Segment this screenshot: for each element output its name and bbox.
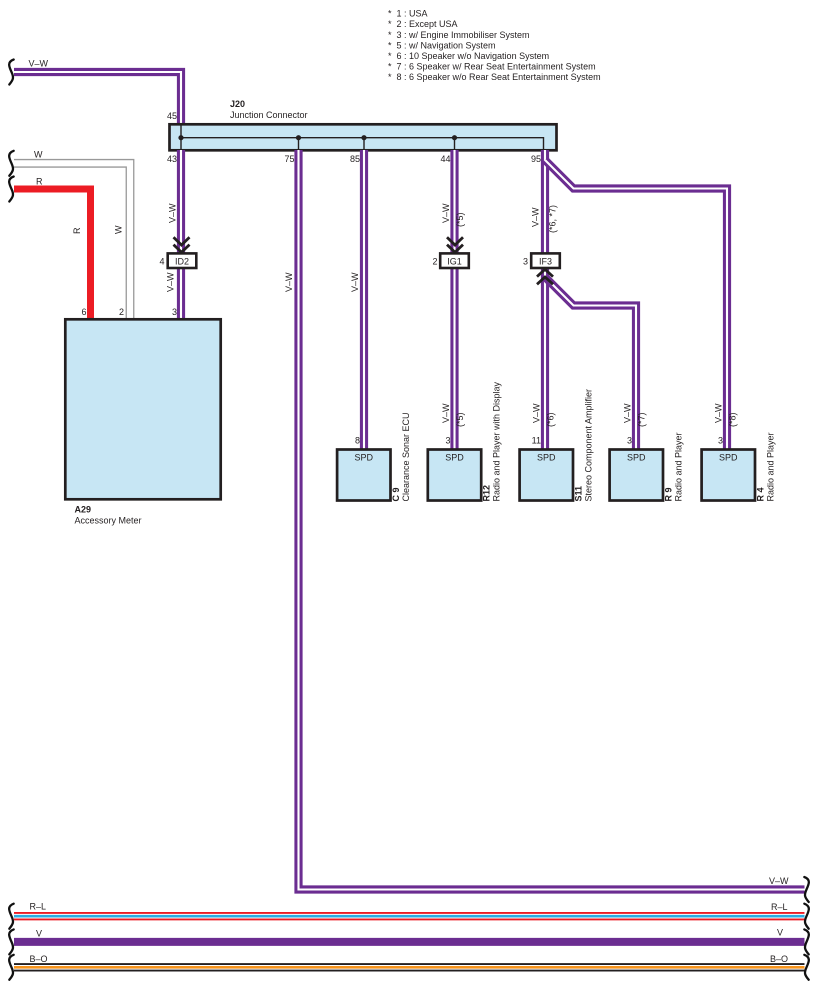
svg-text:S11: S11 xyxy=(573,486,583,502)
J20 internal bus wire xyxy=(181,126,544,151)
break symbol V left xyxy=(9,929,14,954)
break symbol V-W top left xyxy=(9,60,14,85)
svg-text:R–L: R–L xyxy=(30,902,47,912)
wire W to A29 pin 2 xyxy=(14,163,130,318)
svg-text:V–W: V–W xyxy=(350,272,360,292)
svg-text:75: 75 xyxy=(284,154,294,164)
svg-text:W: W xyxy=(114,225,124,234)
break symbol W left xyxy=(9,151,14,176)
svg-text:3: 3 xyxy=(523,256,528,266)
svg-text:8 : 6 Speaker w/o Rear Seat En: 8 : 6 Speaker w/o Rear Seat Entertainmen… xyxy=(397,72,601,82)
component R4 Radio and Player xyxy=(702,450,755,501)
svg-text:*: * xyxy=(388,19,392,29)
svg-text:85: 85 xyxy=(350,154,360,164)
break symbol B-O right xyxy=(804,955,809,980)
junction connector J20 xyxy=(170,124,557,150)
wire V-W J20 pin 75 across bottom to right xyxy=(299,150,805,890)
svg-text:3: 3 xyxy=(718,435,723,445)
connector IF3 xyxy=(531,253,560,268)
arrow into IF3 xyxy=(537,269,553,284)
svg-text:R12: R12 xyxy=(482,485,492,502)
svg-text:Clearance Sonar ECU: Clearance Sonar ECU xyxy=(401,412,411,501)
junction node pin 75 xyxy=(296,135,301,140)
svg-text:V–W: V–W xyxy=(284,272,294,292)
svg-text:6 : 10 Speaker w/o Navigation: 6 : 10 Speaker w/o Navigation System xyxy=(397,51,550,61)
break symbol B-O left xyxy=(9,955,14,980)
svg-text:7 : 6 Speaker w/ Rear Seat Ent: 7 : 6 Speaker w/ Rear Seat Entertainment… xyxy=(397,62,596,72)
svg-text:3: 3 xyxy=(172,307,177,317)
svg-text:V–W: V–W xyxy=(532,403,542,423)
svg-text:8: 8 xyxy=(355,435,360,445)
svg-text:SPD: SPD xyxy=(719,453,738,463)
svg-text:(*8): (*8) xyxy=(728,412,738,427)
svg-text:*: * xyxy=(388,40,392,50)
component C9 Clearance Sonar ECU xyxy=(337,450,390,501)
svg-text:*: * xyxy=(388,72,392,82)
component R12 Radio and Player with Display xyxy=(428,450,481,501)
break symbol R left xyxy=(9,177,14,202)
svg-text:*: * xyxy=(388,30,392,40)
wire V-W ID2 to A29 pin 3 xyxy=(177,268,185,318)
svg-text:Accessory Meter: Accessory Meter xyxy=(75,516,142,526)
svg-text:2 : Except USA: 2 : Except USA xyxy=(397,19,458,29)
svg-text:R: R xyxy=(72,227,82,234)
svg-text:ID2: ID2 xyxy=(175,256,189,266)
component S11 Stereo Component Amplifier xyxy=(520,450,573,501)
svg-text:6: 6 xyxy=(81,307,86,317)
svg-text:B–O: B–O xyxy=(770,954,788,964)
svg-text:R 4: R 4 xyxy=(755,487,765,501)
svg-text:5 : w/ Navigation System: 5 : w/ Navigation System xyxy=(397,40,496,50)
svg-text:V–W: V–W xyxy=(166,272,176,292)
wire R to A29 pin 6 xyxy=(14,189,91,318)
svg-text:43: 43 xyxy=(167,154,177,164)
svg-text:C 9: C 9 xyxy=(391,487,401,501)
junction node pin 43 xyxy=(178,135,183,140)
break symbol V-W bottom right xyxy=(804,877,809,902)
arrow into IG1 xyxy=(447,237,463,252)
svg-text:SPD: SPD xyxy=(445,453,464,463)
svg-text:IF3: IF3 xyxy=(539,256,552,266)
svg-text:SPD: SPD xyxy=(355,453,374,463)
junction node pin 85 xyxy=(361,135,366,140)
svg-text:*: * xyxy=(388,62,392,72)
break symbol R-L right xyxy=(804,904,809,929)
svg-text:W: W xyxy=(34,150,43,160)
svg-text:IG1: IG1 xyxy=(447,256,462,266)
svg-text:11: 11 xyxy=(532,435,541,445)
svg-text:Junction Connector: Junction Connector xyxy=(230,110,308,120)
wire V bottom bus xyxy=(14,938,805,946)
wire V-W from instrument panel to J20 pin 45 xyxy=(14,72,181,124)
wire V-W IF3 to S11 xyxy=(541,268,549,449)
wire V-W branch to R9 xyxy=(545,277,636,449)
svg-text:V–W: V–W xyxy=(623,403,633,423)
svg-text:Radio and Player with Display: Radio and Player with Display xyxy=(492,381,502,501)
wire B-O bottom bus xyxy=(14,963,805,971)
svg-text:(*5): (*5) xyxy=(455,412,465,427)
svg-text:V: V xyxy=(36,929,42,939)
svg-text:SPD: SPD xyxy=(627,453,646,463)
svg-text:95: 95 xyxy=(531,154,541,164)
wire V-W IG1 to R12 xyxy=(450,268,458,449)
arrow into ID2 xyxy=(174,237,190,252)
svg-text:4: 4 xyxy=(159,256,164,266)
svg-text:*: * xyxy=(388,51,392,61)
svg-text:R: R xyxy=(36,176,43,186)
svg-text:3 : w/ Engine Immobiliser Syst: 3 : w/ Engine Immobiliser System xyxy=(397,30,530,40)
wire R-L bottom bus xyxy=(14,912,805,920)
svg-text:3: 3 xyxy=(627,435,632,445)
break symbol V right xyxy=(804,929,809,954)
svg-text:V–W: V–W xyxy=(441,203,451,223)
wire V-W J20 pin 44 to IG1 xyxy=(450,150,458,253)
svg-text:(*6, *7): (*6, *7) xyxy=(548,205,558,233)
svg-text:B–O: B–O xyxy=(30,954,48,964)
svg-text:V–W: V–W xyxy=(29,59,49,69)
svg-text:Stereo Component Amplifier: Stereo Component Amplifier xyxy=(583,389,593,502)
junction node pin 44 xyxy=(452,135,457,140)
svg-text:(*5): (*5) xyxy=(455,212,465,227)
svg-text:(*7): (*7) xyxy=(637,412,647,427)
svg-text:3: 3 xyxy=(445,435,450,445)
legend notes xyxy=(388,9,601,82)
wire V-W J20 pin 95 to IF3 xyxy=(541,150,549,253)
svg-text:44: 44 xyxy=(440,154,450,164)
wire V-W J20 pin 43 to ID2 xyxy=(177,150,185,253)
component R9 Radio and Player xyxy=(610,450,663,501)
connector IG1 xyxy=(440,253,469,268)
svg-text:*: * xyxy=(388,9,392,19)
svg-text:V–W: V–W xyxy=(769,876,789,886)
wire V-W J20 pin 85 to C9 xyxy=(360,150,368,449)
svg-text:J20: J20 xyxy=(230,99,245,109)
svg-text:Radio and Player: Radio and Player xyxy=(765,432,775,501)
svg-text:R–L: R–L xyxy=(771,902,788,912)
svg-text:V–W: V–W xyxy=(714,403,724,423)
svg-text:1 : USA: 1 : USA xyxy=(397,9,428,19)
svg-text:(*6): (*6) xyxy=(546,412,556,427)
component A29 Accessory Meter xyxy=(65,319,220,499)
connector ID2 xyxy=(168,253,197,268)
svg-text:2: 2 xyxy=(119,307,124,317)
svg-text:R 9: R 9 xyxy=(663,487,673,501)
svg-text:A29: A29 xyxy=(75,505,92,515)
svg-text:V–W: V–W xyxy=(441,403,451,423)
svg-text:45: 45 xyxy=(167,111,177,121)
svg-text:V–W: V–W xyxy=(531,207,541,227)
svg-text:V–W: V–W xyxy=(168,203,178,223)
svg-text:Radio and Player: Radio and Player xyxy=(673,432,683,501)
svg-text:V: V xyxy=(777,928,783,938)
svg-text:2: 2 xyxy=(432,256,437,266)
wire V-W branch to R4 xyxy=(545,160,727,449)
svg-text:SPD: SPD xyxy=(537,453,556,463)
break symbol R-L left xyxy=(9,904,14,929)
